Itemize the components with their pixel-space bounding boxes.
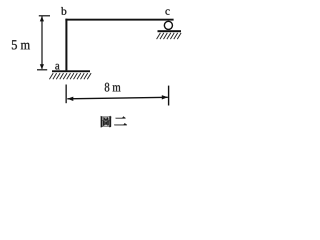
roller support hatching at c <box>157 33 182 39</box>
dimension 5 m : vertical line <box>41 16 42 68</box>
node label c <box>165 9 169 14</box>
caption character er (two) <box>114 117 126 125</box>
dimension 8 m : left extension line <box>66 85 67 104</box>
dimension 5 m : bottom arrowhead <box>40 64 44 69</box>
roller support circle at c <box>164 21 172 29</box>
dimension 5 m : top arrowhead <box>40 16 44 21</box>
node label a <box>55 64 59 70</box>
dimension 5 m : bottom tick <box>37 69 47 70</box>
fixed support hatching at a <box>49 73 91 79</box>
dimension 8 m : horizontal line <box>67 97 168 99</box>
beam bc (horizontal member) <box>65 19 173 21</box>
dimension 5 m : value label <box>12 40 30 49</box>
caption character tu (figure) <box>101 116 112 127</box>
dimension 5 m : top tick <box>39 15 50 16</box>
node label b <box>61 7 66 15</box>
dimension 8 m : right extension line <box>168 86 169 106</box>
roller support ground line at c <box>158 30 182 32</box>
dimension 8 m : right arrowhead <box>162 95 168 99</box>
dimension 8 m : value label <box>105 83 121 92</box>
dimension 8 m : left arrowhead <box>67 97 73 101</box>
column ab (vertical member) <box>65 19 67 71</box>
fixed support ground line at a <box>52 70 90 72</box>
